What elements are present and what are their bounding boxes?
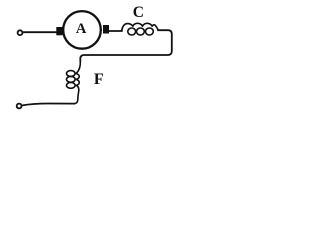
svg-text:F: F [94, 71, 104, 88]
svg-text:A: A [76, 21, 87, 37]
svg-text:C: C [133, 4, 144, 21]
